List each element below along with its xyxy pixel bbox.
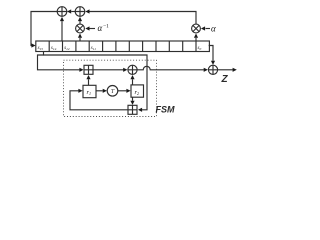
arrowhead into XOR1 right <box>67 9 71 13</box>
XOR gate X4 (keystream output) <box>208 65 217 74</box>
svg-text:FSM: FSM <box>156 104 176 114</box>
wire XOR2 output to XOR1 <box>71 11 75 13</box>
svg-text:α: α <box>98 23 103 33</box>
arrowhead into XOR1 bottom <box>60 17 64 21</box>
wire R2 up into X3 <box>132 79 134 85</box>
wire M1 output up to XOR2 <box>79 21 81 24</box>
wire output Z <box>218 69 233 71</box>
arrowhead into M2 bottom <box>194 34 198 38</box>
wire A2 output loop back to R1 <box>70 91 128 110</box>
svg-text:s11: s11 <box>91 46 96 51</box>
wire from top line into XOR2 <box>90 12 197 25</box>
alpha^-1 constant arrow into M1 <box>89 28 95 30</box>
arrowhead into S circle left <box>103 89 107 93</box>
svg-text:α: α <box>211 24 216 34</box>
arrowhead into output XOR top <box>211 61 215 65</box>
adder A2 (boxed plus, FSM bottom) <box>128 105 137 114</box>
wire tap from LFSR up into M2 <box>195 38 197 41</box>
arrowhead into XOR2 right <box>85 9 89 13</box>
wire s15 output down-left-down to adder input <box>38 52 80 70</box>
wire R1 up into A1 <box>88 79 90 85</box>
arrowhead into LFSR left edge <box>31 43 35 47</box>
arrowhead into A1 bottom <box>86 75 90 79</box>
alpha constant arrow into M2 <box>206 28 211 30</box>
arrowhead into X3 bottom <box>130 75 134 79</box>
multiplier M2 alpha (top right) <box>192 24 201 33</box>
wire R2 down into bottom adder <box>132 97 134 101</box>
arrowhead into R1 left <box>78 89 82 93</box>
wire A1 output to FSM XOR <box>93 69 124 71</box>
XOR gate X1 (top left) <box>57 7 67 17</box>
XOR gate X2 (top middle) <box>75 7 85 17</box>
svg-text:s15: s15 <box>38 46 44 51</box>
wire R1 to S circle <box>96 90 103 92</box>
arrowhead into M1 bottom <box>78 34 82 38</box>
wire s-tap right branch down to bottom adder <box>44 55 148 110</box>
arrowhead into R2 left <box>126 89 130 93</box>
arrowhead output end <box>233 68 237 72</box>
svg-text:s14: s14 <box>51 46 57 51</box>
register R1 <box>83 85 96 97</box>
arrowhead into output XOR left <box>204 68 208 72</box>
arrowhead into adder A1 left <box>79 68 83 72</box>
svg-text:s12: s12 <box>64 46 70 51</box>
wire tap from LFSR up into M1 <box>79 38 81 41</box>
svg-text:−1: −1 <box>103 24 109 30</box>
adder A1 (boxed plus, FSM top left) <box>84 65 93 74</box>
FSM dashed boundary <box>64 60 157 116</box>
S-box circle T <box>107 86 118 97</box>
svg-text:r2: r2 <box>135 89 140 96</box>
arrowhead into bottom adder right <box>138 108 142 112</box>
register R2 <box>131 85 144 97</box>
svg-text:s0: s0 <box>198 46 202 51</box>
LFSR register row <box>36 41 210 52</box>
wire s0 output right and down to output XOR <box>209 46 213 61</box>
arrowhead into bottom adder top <box>130 101 134 105</box>
svg-text:r1: r1 <box>87 89 92 96</box>
wire tap from LFSR up into XOR1 <box>61 21 63 41</box>
arrowhead into FSM XOR left <box>123 68 127 72</box>
XOR gate X3 (FSM output) <box>128 65 137 74</box>
multiplier M1 alpha^-1 <box>76 24 85 33</box>
wire F output with hop over vertical <box>137 66 204 69</box>
svg-text:Z: Z <box>221 74 229 85</box>
arrowhead into XOR2 bottom <box>78 17 82 21</box>
wire S circle to R2 <box>118 90 127 92</box>
wire feedback from XOR1 to LFSR input <box>31 12 57 46</box>
